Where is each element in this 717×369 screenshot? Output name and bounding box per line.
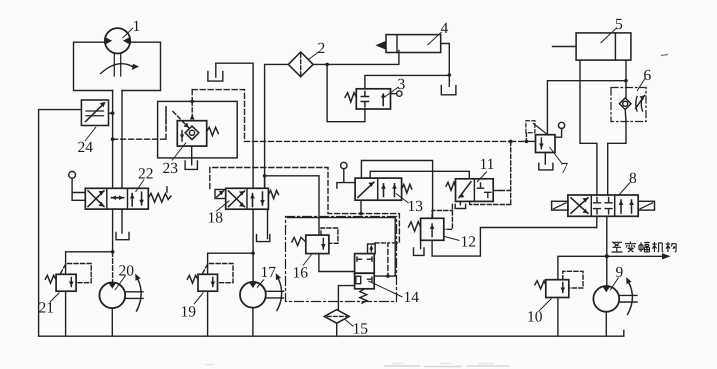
svg-text:14: 14 xyxy=(404,289,420,306)
svg-text:6: 6 xyxy=(644,67,652,84)
svg-text:11: 11 xyxy=(480,156,495,173)
svg-text:23: 23 xyxy=(163,160,179,177)
svg-text:18: 18 xyxy=(208,210,224,227)
svg-text:16: 16 xyxy=(293,265,309,282)
svg-text:10: 10 xyxy=(527,309,543,326)
svg-text:20: 20 xyxy=(119,263,135,280)
svg-text:12: 12 xyxy=(461,234,477,251)
svg-text:4: 4 xyxy=(441,20,449,37)
svg-text:13: 13 xyxy=(408,198,424,215)
svg-text:8: 8 xyxy=(629,170,637,187)
svg-text:17: 17 xyxy=(261,264,277,281)
svg-text:3: 3 xyxy=(398,76,406,93)
svg-text:5: 5 xyxy=(615,16,623,33)
svg-text:9: 9 xyxy=(616,264,624,281)
svg-text:19: 19 xyxy=(181,304,197,321)
svg-text:2: 2 xyxy=(318,40,326,57)
svg-text:1: 1 xyxy=(133,18,141,35)
svg-text:7: 7 xyxy=(561,160,569,177)
svg-text:21: 21 xyxy=(39,300,55,317)
svg-text:22: 22 xyxy=(138,166,154,183)
svg-text:24: 24 xyxy=(78,139,94,156)
svg-text:15: 15 xyxy=(353,321,369,338)
